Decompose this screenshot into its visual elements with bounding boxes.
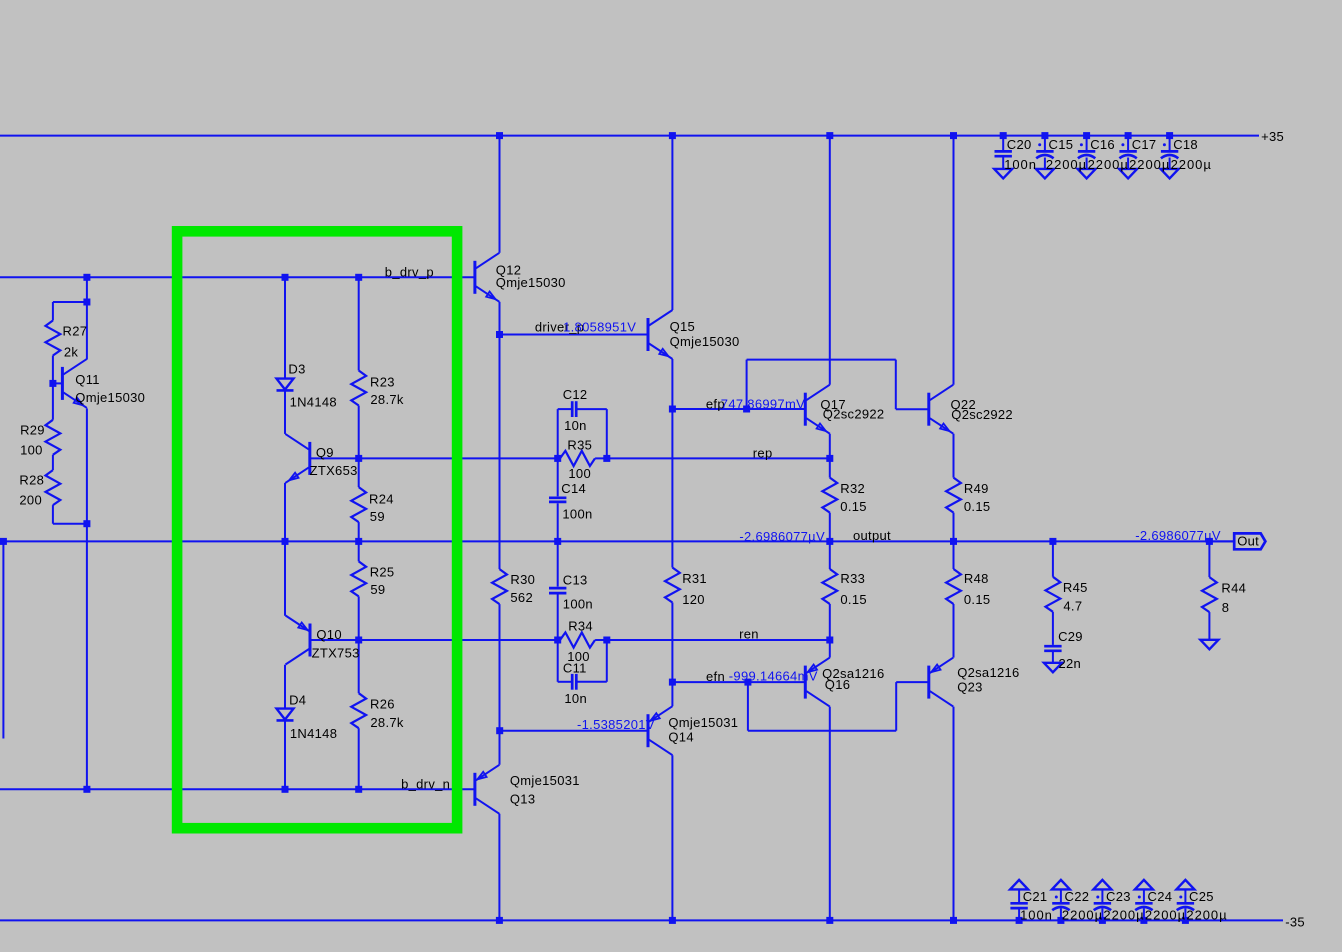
- junction b_drv_n/d4: [282, 786, 289, 793]
- svg-text:Qmje15031: Qmje15031: [668, 715, 738, 730]
- wire efn: [672, 681, 805, 683]
- svg-text:R24: R24: [369, 491, 394, 506]
- svg-text:1N4148: 1N4148: [290, 395, 337, 410]
- diode D4: [277, 709, 294, 720]
- wire c17 leads: [1127, 136, 1129, 151]
- wire q13 collector lead: [498, 814, 500, 921]
- svg-text:C16: C16: [1090, 137, 1115, 152]
- svg-text:0.15: 0.15: [840, 592, 867, 607]
- resistor R30: [492, 569, 507, 604]
- junction rep/q9: [355, 455, 362, 462]
- wire q15 emitter lead: [671, 359, 673, 409]
- junction +35/q12: [496, 132, 503, 139]
- wire d4 bottom lead: [284, 720, 286, 790]
- wire q23 collector lead: [953, 707, 955, 921]
- svg-text:2200µ: 2200µ: [1145, 908, 1186, 923]
- junction -35/c23: [1099, 917, 1106, 924]
- svg-text:2200µ: 2200µ: [1186, 908, 1227, 923]
- junction efp/r31: [669, 406, 676, 413]
- junction q11 emitter: [83, 520, 90, 527]
- wire q22 bridge: [746, 360, 748, 409]
- svg-text:R45: R45: [1063, 580, 1088, 595]
- wire output rail: [0, 540, 1234, 542]
- wire r49-r48 link: [953, 513, 955, 569]
- wire c20 leads: [1002, 136, 1004, 151]
- svg-text:R48: R48: [964, 571, 989, 586]
- junction +35/c17: [1125, 132, 1132, 139]
- svg-text:ren: ren: [739, 626, 759, 641]
- svg-text:C24: C24: [1148, 889, 1173, 904]
- junction ren/c11-left: [554, 637, 561, 644]
- svg-text:output: output: [853, 528, 891, 543]
- wire efp: [672, 408, 805, 410]
- svg-text:100: 100: [20, 442, 43, 457]
- svg-text:C20: C20: [1007, 137, 1032, 152]
- svg-text:100: 100: [568, 466, 591, 481]
- junction output/left-stub: [0, 538, 7, 545]
- svg-text:C25: C25: [1189, 889, 1214, 904]
- capacitor C29: [1044, 645, 1061, 648]
- svg-text:R35: R35: [567, 437, 592, 452]
- svg-text:C14: C14: [561, 481, 586, 496]
- svg-text:R28: R28: [19, 473, 44, 488]
- svg-text:Qmje15031: Qmje15031: [510, 773, 580, 788]
- wire q22 collector: [953, 136, 955, 385]
- wire c25 leads: [1184, 909, 1186, 921]
- diode D3: [277, 379, 294, 390]
- wire q12 collector: [499, 136, 501, 253]
- wire q11 base stub: [53, 382, 63, 384]
- capacitor C12: [571, 401, 574, 417]
- junction -35/c21: [1016, 917, 1023, 924]
- ground above C24: [1135, 880, 1153, 890]
- svg-text:R25: R25: [370, 565, 395, 580]
- svg-text:28.7k: 28.7k: [370, 715, 404, 730]
- resistor R23: [351, 371, 366, 406]
- junction driver_p: [496, 331, 503, 338]
- junction b_drv_n/q11: [83, 786, 90, 793]
- resistor R44: [1202, 577, 1217, 612]
- svg-text:R23: R23: [370, 375, 395, 390]
- junction +35/c15: [1041, 132, 1048, 139]
- wire c14 leads: [557, 458, 559, 496]
- svg-text:efn: efn: [706, 669, 725, 684]
- resistor R29: [46, 420, 61, 455]
- ground below C16: [1078, 169, 1096, 179]
- ground below C15: [1036, 169, 1054, 179]
- ground above C21: [1010, 880, 1028, 890]
- transistor Q15: [647, 318, 650, 351]
- junction efn/r31: [669, 679, 676, 686]
- svg-text:Q9: Q9: [316, 445, 334, 460]
- wire r32 leads: [829, 458, 831, 477]
- junction output/r45: [1049, 538, 1056, 545]
- svg-text:8: 8: [1222, 600, 1230, 615]
- capacitor C21: [1010, 902, 1027, 905]
- junction driver_n: [496, 727, 503, 734]
- svg-text:C23: C23: [1106, 889, 1131, 904]
- transistor Q22: [927, 393, 930, 426]
- svg-text:Q16: Q16: [825, 677, 850, 692]
- capacitor C15: [1036, 150, 1053, 153]
- resistor R33: [822, 569, 837, 604]
- wire q11 top stub: [53, 301, 87, 303]
- capacitor C22: [1052, 902, 1069, 905]
- junction +35/q15: [669, 132, 676, 139]
- selection rectangle: [177, 231, 457, 828]
- svg-text:b_drv_n: b_drv_n: [401, 776, 450, 791]
- svg-text:R33: R33: [840, 571, 865, 586]
- junction output/r24-r25: [355, 538, 362, 545]
- svg-text:747.86997mV: 747.86997mV: [721, 397, 805, 412]
- wire ren left: [310, 639, 560, 641]
- wire r23 leads: [358, 277, 360, 370]
- wire x86 lower: [86, 408, 88, 789]
- svg-text:100n: 100n: [1020, 908, 1053, 923]
- wire c16 leads: [1086, 136, 1088, 151]
- svg-text:28.7k: 28.7k: [370, 392, 404, 407]
- ground below C17: [1119, 169, 1137, 179]
- junction output/out-port: [1206, 538, 1213, 545]
- svg-text:10n: 10n: [564, 691, 587, 706]
- wire q14 emitter lead: [671, 682, 673, 706]
- transistor Q12: [473, 261, 476, 294]
- svg-text:-2.6986077µV: -2.6986077µV: [1135, 528, 1221, 543]
- svg-text:C13: C13: [563, 572, 588, 587]
- resistor R28: [46, 470, 61, 505]
- wire rep right: [595, 457, 830, 459]
- svg-text:C18: C18: [1173, 137, 1198, 152]
- wire q9 emitter lead: [284, 483, 286, 616]
- junction efp/q22-bridge: [743, 406, 750, 413]
- capacitor C14: [549, 496, 566, 499]
- svg-text:Qmje15030: Qmje15030: [496, 275, 566, 290]
- svg-text:2k: 2k: [64, 344, 79, 359]
- wire c23 leads: [1101, 909, 1103, 921]
- wire q10-d4: [284, 665, 286, 709]
- wire r31 leads: [671, 409, 673, 568]
- wire q14 collector lead: [671, 755, 673, 920]
- svg-text:2200µ: 2200µ: [1171, 157, 1212, 172]
- transistor Q13: [473, 773, 476, 806]
- svg-text:59: 59: [370, 582, 385, 597]
- wire -35 rail: [0, 919, 1283, 921]
- svg-text:Q2sc2922: Q2sc2922: [951, 407, 1013, 422]
- junction ren/c11-right: [603, 637, 610, 644]
- svg-text:Q15: Q15: [670, 319, 695, 334]
- wire q15 collector: [671, 136, 673, 310]
- wire x86 upper: [86, 277, 88, 302]
- svg-text:100n: 100n: [1004, 157, 1037, 172]
- svg-text:C22: C22: [1065, 889, 1090, 904]
- wire q17 collector: [829, 136, 831, 385]
- svg-text:R31: R31: [682, 571, 707, 586]
- wire q23 bridge: [747, 682, 749, 731]
- svg-text:22n: 22n: [1059, 656, 1082, 671]
- svg-text:2200µ: 2200µ: [1088, 157, 1129, 172]
- wire c18 leads: [1169, 136, 1171, 151]
- svg-text:120: 120: [682, 592, 705, 607]
- svg-text:Q23: Q23: [957, 680, 982, 695]
- svg-text:200: 200: [19, 492, 42, 507]
- wire q17 emitter lead: [829, 434, 831, 459]
- svg-text:2200µ: 2200µ: [1129, 157, 1170, 172]
- junction +35/c20: [1000, 132, 1007, 139]
- svg-text:rep: rep: [753, 446, 773, 461]
- svg-text:Q10: Q10: [316, 627, 341, 642]
- junction ren/r33: [826, 637, 833, 644]
- wire c15 leads: [1044, 136, 1046, 151]
- junction rep/c12-left: [554, 455, 561, 462]
- capacitor C17: [1119, 150, 1136, 153]
- svg-text:Q2sa1216: Q2sa1216: [957, 665, 1019, 680]
- junction +35/q17: [826, 132, 833, 139]
- junction rep/r32: [826, 455, 833, 462]
- junction -35/q23: [950, 917, 957, 924]
- svg-text:100n: 100n: [562, 506, 592, 521]
- svg-text:0.15: 0.15: [840, 499, 867, 514]
- ground below C18: [1161, 169, 1179, 179]
- wire rep left: [310, 457, 560, 459]
- port Out: [1234, 533, 1265, 549]
- wire b_drv_n rail: [0, 788, 475, 790]
- wire +35 rail: [0, 135, 1259, 137]
- svg-text:C12: C12: [563, 387, 588, 402]
- svg-text:R34: R34: [568, 619, 593, 634]
- junction output/c14-c13: [554, 538, 561, 545]
- ground above C22: [1052, 880, 1070, 890]
- svg-text:R26: R26: [370, 697, 395, 712]
- wire c21 leads: [1018, 909, 1020, 921]
- junction efn/q23-bridge: [744, 679, 751, 686]
- resistor R35: [560, 451, 595, 466]
- wire r45 leads: [1052, 541, 1054, 576]
- svg-text:1N4148: 1N4148: [290, 726, 337, 741]
- junction -35/c25: [1182, 917, 1189, 924]
- transistor Q16: [804, 666, 807, 699]
- capacitor C25: [1177, 902, 1194, 905]
- wire q16 collector lead: [829, 707, 831, 921]
- junction q11 collector: [83, 299, 90, 306]
- ground below C20: [994, 169, 1012, 179]
- wire q12 emitter lead: [499, 302, 501, 335]
- svg-text:Q2sc2922: Q2sc2922: [823, 407, 885, 422]
- junction -35/c24: [1140, 917, 1147, 924]
- wire r48-q23 link: [953, 604, 955, 658]
- svg-text:-999.14664mV: -999.14664mV: [729, 669, 818, 684]
- wire c22 leads: [1060, 909, 1062, 921]
- resistor R24: [351, 487, 366, 522]
- transistor Q9: [308, 442, 311, 475]
- transistor Q23: [927, 666, 930, 699]
- resistor R34: [560, 632, 595, 647]
- svg-text:R27: R27: [63, 323, 88, 338]
- resistor R31: [665, 568, 680, 603]
- junction q11 base: [49, 380, 56, 387]
- svg-text:R44: R44: [1221, 581, 1246, 596]
- svg-text:Q11: Q11: [75, 372, 100, 387]
- wire r33 leads: [829, 541, 831, 569]
- svg-text:D4: D4: [289, 692, 306, 707]
- svg-text:4.7: 4.7: [1063, 598, 1082, 613]
- wire driver_p: [500, 334, 649, 336]
- wire d3-q9: [284, 390, 286, 434]
- svg-text:100n: 100n: [563, 597, 593, 612]
- svg-text:2200µ: 2200µ: [1046, 157, 1087, 172]
- junction -35/c22: [1057, 917, 1064, 924]
- wire r25 leads: [358, 541, 360, 561]
- junction b_drv_p/q11: [83, 274, 90, 281]
- wire c24 leads: [1143, 909, 1145, 921]
- resistor R32: [822, 478, 837, 513]
- capacitor C23: [1094, 902, 1111, 905]
- wire ren right: [595, 639, 830, 641]
- svg-text:0.15: 0.15: [964, 592, 991, 607]
- wire out: [1209, 540, 1234, 542]
- svg-text:Qmje15030: Qmje15030: [670, 334, 740, 349]
- wire q14 base: [500, 730, 648, 732]
- wire d3 top lead: [284, 277, 286, 378]
- wire r26 leads: [358, 640, 360, 693]
- svg-text:-2.6986077µV: -2.6986077µV: [739, 529, 825, 544]
- junction output/q9-q10: [282, 538, 289, 545]
- svg-text:2200µ: 2200µ: [1062, 908, 1103, 923]
- resistor R27: [46, 321, 61, 356]
- capacitor C24: [1135, 902, 1152, 905]
- capacitor C13: [549, 587, 566, 590]
- svg-text:ZTX653: ZTX653: [310, 463, 358, 478]
- svg-text:10n: 10n: [564, 418, 587, 433]
- junction output/r32-r33: [826, 538, 833, 545]
- junction b_drv_p/r23: [355, 274, 362, 281]
- svg-text:D3: D3: [288, 361, 305, 376]
- capacitor C16: [1078, 150, 1095, 153]
- junction b_drv_n/r26: [355, 786, 362, 793]
- svg-text:Out: Out: [1237, 534, 1259, 549]
- svg-text:b_drv_p: b_drv_p: [385, 265, 434, 280]
- resistor R25: [351, 561, 366, 596]
- svg-text:59: 59: [370, 509, 385, 524]
- transistor Q17: [804, 393, 807, 426]
- wire q11 bottom stub: [52, 505, 54, 524]
- wire c29 bottom lead: [1052, 652, 1054, 664]
- resistor R48: [946, 569, 961, 604]
- svg-text:562: 562: [510, 590, 533, 605]
- wire b_drv_p rail: [0, 276, 475, 278]
- svg-text:-35: -35: [1285, 914, 1305, 929]
- svg-text:R29: R29: [20, 423, 45, 438]
- junction -35/q13: [496, 917, 503, 924]
- svg-text:R30: R30: [510, 572, 535, 587]
- svg-text:Qmje15030: Qmje15030: [75, 390, 145, 405]
- capacitor C20: [995, 150, 1012, 153]
- ground above C23: [1093, 880, 1111, 890]
- junction +35/q22: [950, 132, 957, 139]
- wire c11 loop: [557, 640, 559, 682]
- resistor R45: [1046, 577, 1061, 612]
- wire c12 loop: [557, 409, 559, 458]
- svg-text:C21: C21: [1023, 889, 1048, 904]
- svg-text:+35: +35: [1261, 129, 1284, 144]
- svg-text:ZTX753: ZTX753: [312, 645, 360, 660]
- junction output/r49-r48: [950, 538, 957, 545]
- ground above C25: [1176, 880, 1194, 890]
- resistor R49: [946, 478, 961, 513]
- wire r30 leads: [499, 335, 501, 570]
- capacitor C18: [1161, 150, 1178, 153]
- svg-text:C15: C15: [1049, 137, 1074, 152]
- wire r24 leads: [358, 458, 360, 487]
- junction ren/q10: [355, 637, 362, 644]
- svg-text:0.15: 0.15: [964, 499, 991, 514]
- svg-text:C29: C29: [1058, 629, 1083, 644]
- wire c13 leads: [557, 541, 559, 586]
- transistor Q11: [61, 367, 64, 400]
- junction -35/q16: [826, 917, 833, 924]
- wire left edge stub: [2, 541, 4, 738]
- svg-text:C11: C11: [563, 661, 587, 676]
- wire r44 leads: [1208, 541, 1210, 577]
- junction rep/c12-right: [603, 455, 610, 462]
- svg-text:1.8058951V: 1.8058951V: [563, 320, 636, 335]
- svg-text:Q13: Q13: [510, 792, 535, 807]
- wire r27-r29 link: [52, 356, 54, 420]
- svg-text:2200µ: 2200µ: [1103, 908, 1144, 923]
- ground below C29: [1044, 663, 1062, 673]
- svg-text:Q14: Q14: [668, 730, 693, 745]
- junction +35/c18: [1166, 132, 1173, 139]
- svg-text:R32: R32: [840, 481, 865, 496]
- svg-text:-1.5385201V: -1.5385201V: [577, 717, 655, 732]
- svg-text:R49: R49: [964, 481, 989, 496]
- transistor Q14: [647, 714, 650, 747]
- resistor R26: [351, 693, 366, 728]
- wire q16 emitter lead: [829, 640, 831, 658]
- transistor Q10: [309, 624, 312, 657]
- ground below R44: [1200, 640, 1218, 650]
- junction b_drv_p/d3: [282, 274, 289, 281]
- svg-text:C17: C17: [1132, 137, 1157, 152]
- wire q22 emitter lead: [953, 434, 955, 478]
- junction -35/q14: [669, 917, 676, 924]
- capacitor C11: [571, 674, 574, 690]
- junction +35/c16: [1083, 132, 1090, 139]
